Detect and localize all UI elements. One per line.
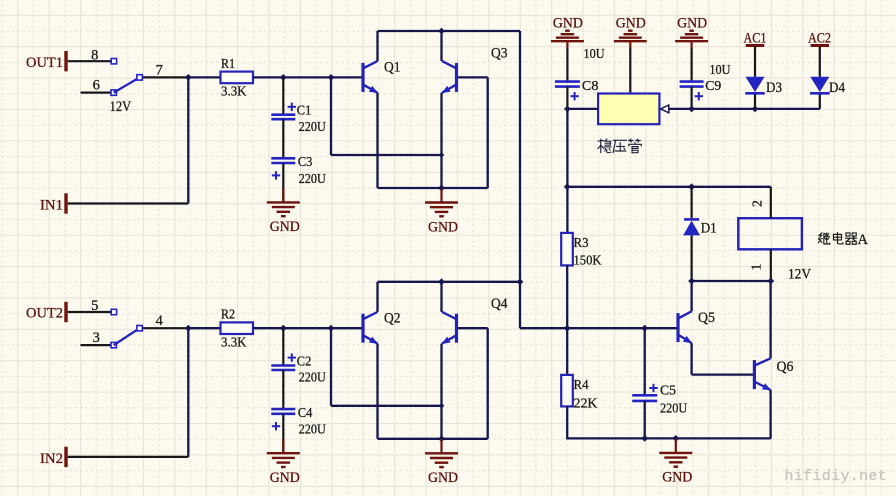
svg-text:Q4: Q4: [491, 296, 508, 312]
svg-text:R3: R3: [574, 235, 589, 250]
svg-text:D1: D1: [701, 221, 717, 237]
svg-text:220U: 220U: [299, 171, 326, 186]
svg-text:GND: GND: [553, 15, 583, 31]
svg-text:GND: GND: [428, 219, 458, 235]
svg-text:Q5: Q5: [698, 310, 715, 326]
svg-text:12V: 12V: [110, 99, 132, 115]
svg-text:C2: C2: [297, 353, 312, 368]
svg-text:OUT1: OUT1: [26, 55, 63, 71]
svg-text:R2: R2: [221, 307, 235, 322]
svg-text:4: 4: [156, 313, 164, 329]
svg-text:C1: C1: [297, 103, 312, 118]
svg-text:IN2: IN2: [40, 451, 63, 467]
svg-text:10U: 10U: [584, 46, 605, 61]
svg-text:C5: C5: [660, 383, 676, 398]
svg-text:7: 7: [156, 62, 163, 78]
svg-text:GND: GND: [270, 219, 300, 235]
svg-text:220U: 220U: [299, 119, 326, 134]
svg-text:Q1: Q1: [384, 60, 401, 76]
svg-text:150K: 150K: [574, 253, 602, 268]
svg-text:GND: GND: [270, 470, 300, 486]
svg-text:R4: R4: [574, 377, 589, 392]
svg-text:D4: D4: [829, 80, 846, 96]
svg-text:OUT2: OUT2: [26, 306, 63, 322]
svg-text:C9: C9: [705, 78, 721, 93]
svg-text:C8: C8: [582, 78, 599, 93]
svg-text:D3: D3: [766, 80, 782, 96]
svg-text:AC1: AC1: [744, 30, 767, 46]
svg-text:hifidiy.net: hifidiy.net: [785, 469, 888, 485]
svg-text:Q3: Q3: [491, 45, 508, 61]
svg-text:220U: 220U: [299, 370, 326, 385]
svg-text:220U: 220U: [299, 422, 326, 437]
svg-text:8: 8: [91, 47, 98, 63]
svg-text:3: 3: [93, 330, 100, 346]
svg-text:C3: C3: [298, 154, 313, 169]
svg-text:22K: 22K: [574, 396, 598, 411]
svg-text:10U: 10U: [709, 62, 730, 77]
svg-text:Q6: Q6: [777, 359, 794, 375]
svg-text:GND: GND: [677, 15, 707, 31]
svg-text:3.3K: 3.3K: [221, 334, 247, 349]
svg-text:2: 2: [750, 200, 765, 207]
svg-text:A: A: [858, 232, 869, 248]
svg-text:AC2: AC2: [808, 30, 831, 46]
svg-text:IN1: IN1: [40, 198, 63, 214]
svg-text:GND: GND: [616, 15, 646, 31]
svg-text:GND: GND: [662, 470, 692, 486]
svg-text:220U: 220U: [660, 401, 687, 416]
svg-text:R1: R1: [221, 56, 235, 71]
svg-text:1: 1: [749, 264, 764, 271]
svg-text:C4: C4: [298, 405, 313, 420]
svg-text:6: 6: [93, 78, 100, 94]
svg-text:12V: 12V: [788, 267, 811, 283]
svg-text:5: 5: [91, 298, 98, 314]
svg-text:Q2: Q2: [384, 310, 401, 326]
svg-text:GND: GND: [428, 470, 458, 486]
svg-text:3.3K: 3.3K: [221, 84, 247, 99]
